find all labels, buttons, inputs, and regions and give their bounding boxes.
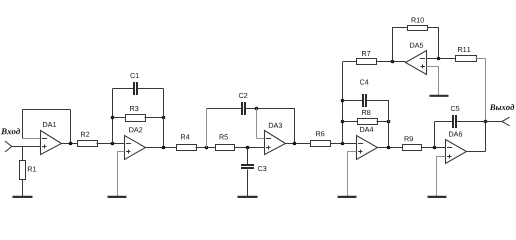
junction R8 right: [387, 120, 391, 124]
junction DA2 out: [162, 146, 166, 150]
ground C3: [238, 196, 258, 198]
junction output node: [484, 120, 488, 124]
wire DA2 fb left vertical: [112, 89, 114, 144]
resistor R6: [311, 141, 331, 147]
wire DA3 output to R6: [286, 143, 312, 145]
wire R11 to output corner: [476, 59, 486, 122]
op-amp DA6: [446, 140, 467, 164]
wire R10 left loop: [393, 28, 408, 62]
wire C2 right vertical: [294, 109, 296, 144]
wire DA5 + to ground: [427, 67, 439, 96]
wire DA2 + to ground: [118, 152, 125, 197]
resistor R11: [456, 56, 477, 62]
ground DA4: [338, 196, 357, 198]
node Вход label: [1, 128, 20, 134]
wire DA2 output to R4: [146, 147, 178, 149]
resistor R9: [403, 145, 422, 151]
wire DA1 feedback: [70, 110, 72, 144]
resistor R7: [357, 59, 377, 65]
resistor R1: [20, 161, 26, 180]
wire R1 branch: [22, 147, 24, 161]
junction R3 right: [162, 116, 166, 120]
wire R8 left lead: [343, 121, 359, 123]
wire DA1 output: [62, 143, 78, 145]
op-amp DA4: [357, 136, 378, 160]
wire C5 left vertical: [434, 122, 436, 148]
wire output node to terminal: [486, 121, 502, 123]
junction DA6 input node: [433, 146, 437, 150]
resistor R5: [216, 145, 235, 151]
wire DA4 output to R9: [378, 147, 403, 149]
junction DA4 input node: [341, 142, 345, 146]
wire R8 right lead: [377, 121, 389, 123]
wire R10 right loop: [428, 28, 439, 59]
capacitor C4: [343, 100, 363, 102]
ground DA5: [430, 95, 449, 97]
op-amp DA3: [265, 131, 286, 155]
ground DA2: [108, 196, 127, 198]
wire DA4 input vertical: [342, 62, 344, 144]
junction DA3 out: [293, 142, 297, 146]
op-amp DA5: [406, 51, 427, 75]
wire R7 left lead: [343, 61, 358, 63]
junction R8 left: [341, 120, 345, 124]
junction C3 tap: [246, 146, 250, 150]
wire DA3 - branch: [256, 109, 258, 139]
capacitor C3: [247, 148, 249, 165]
wire DA6 + to ground: [437, 157, 446, 197]
wire R2 to DA2: [97, 143, 126, 145]
ground DA6: [428, 196, 447, 198]
wire R6 to DA4 -: [330, 143, 357, 145]
capacitor C1: [113, 88, 134, 90]
junction DA5 out node: [391, 60, 395, 64]
resistor R8: [358, 119, 378, 125]
wire DA2 fb right vertical: [163, 89, 165, 148]
junction R4-R5 node: [205, 146, 209, 150]
wire R3 left lead: [113, 117, 126, 119]
resistor R2: [78, 141, 98, 147]
wire output node down to DA6 out: [485, 122, 487, 152]
wire DA4 + to ground: [348, 152, 357, 197]
node Выход label: [490, 104, 515, 110]
op-amp DA2: [125, 136, 146, 160]
resistor R3: [126, 115, 146, 122]
wire R7 to DA5 out: [376, 61, 405, 63]
junction DA1 out: [69, 142, 73, 146]
resistor R10: [408, 26, 428, 31]
wire C4 right vertical: [388, 100, 390, 147]
ground R1: [13, 196, 33, 198]
junction DA2 input node: [111, 142, 115, 146]
resistor R4: [177, 145, 197, 151]
output terminal: [502, 117, 510, 126]
junction DA4 out: [387, 146, 391, 150]
wire R1 to ground: [22, 180, 24, 197]
capacitor C5: [435, 121, 453, 123]
wire R4 to R5: [196, 147, 216, 149]
wire DA1 - input: [23, 138, 41, 140]
junction R3 left: [111, 116, 115, 120]
junction C2 - DA3 minus: [255, 107, 259, 111]
junction C4 left: [341, 99, 345, 103]
wire DA5 - to R11: [427, 58, 456, 60]
input terminal: [5, 141, 12, 152]
junction DA5 minus node: [437, 57, 441, 61]
wire input to DA1 +: [12, 146, 41, 148]
op-amp DA1: [41, 131, 62, 155]
wire R3 right lead: [145, 117, 164, 119]
wire DA3 - horizontal: [257, 138, 265, 140]
wire C2 left vertical: [206, 109, 208, 148]
wire DA6 output: [467, 151, 486, 153]
wire R9 to DA6 -: [421, 147, 446, 149]
capacitor C2: [207, 108, 242, 110]
wire R5 to DA3 +: [234, 147, 265, 149]
